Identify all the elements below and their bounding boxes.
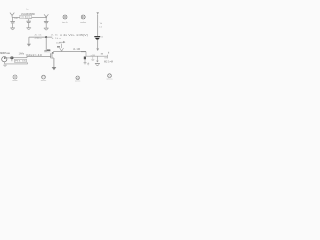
svg-text:nd: nd — [56, 42, 61, 44]
svg-text:R1 1k: R1 1k — [15, 61, 28, 63]
svg-text:woc: woc — [41, 80, 47, 82]
svg-text:woc: woc — [75, 81, 81, 83]
svg-text:x. 1k u: x. 1k u — [52, 38, 61, 40]
svg-text:JL 1M: JL 1M — [73, 49, 80, 51]
svg-text:x1M: x1M — [91, 55, 96, 57]
svg-text:NMOS: NMOS — [0, 51, 7, 55]
svg-text:woc: woc — [12, 80, 18, 82]
svg-text:-C30 u: -C30 u — [34, 38, 41, 40]
svg-text:tech: tech — [62, 21, 68, 24]
svg-text:1n 1n: 1n 1n — [25, 18, 31, 20]
svg-text:woca: woca — [107, 79, 113, 81]
svg-text:4.4: 4.4 — [99, 26, 102, 28]
svg-text:M2 1=M: M2 1=M — [104, 62, 113, 64]
svg-text:50: 50 — [101, 37, 103, 39]
svg-text:1n: 1n — [26, 9, 28, 11]
svg-text:Vd: Vd — [100, 23, 102, 25]
svg-text:n 4x Vin- 1=B(V): n 4x Vin- 1=B(V) — [60, 33, 88, 37]
svg-text:1N4s: 1N4s — [19, 52, 25, 55]
